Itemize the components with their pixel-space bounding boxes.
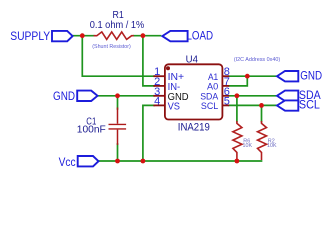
svg-text:(I2C Address 0x40): (I2C Address 0x40) bbox=[234, 57, 280, 63]
svg-text:5: 5 bbox=[224, 95, 230, 107]
svg-text:10K: 10K bbox=[243, 143, 253, 149]
svg-text:SUPPLY: SUPPLY bbox=[10, 29, 50, 43]
svg-text:VS: VS bbox=[168, 101, 181, 112]
svg-text:10K: 10K bbox=[267, 143, 277, 149]
svg-text:GND: GND bbox=[53, 89, 75, 103]
svg-text:100nF: 100nF bbox=[77, 124, 106, 135]
svg-text:SCL: SCL bbox=[201, 101, 218, 112]
svg-text:LOAD: LOAD bbox=[187, 28, 214, 42]
svg-text:0.1 ohm / 1%: 0.1 ohm / 1% bbox=[90, 19, 145, 31]
svg-text:(Shunt Resistor): (Shunt Resistor) bbox=[92, 44, 131, 50]
svg-text:GND: GND bbox=[300, 69, 322, 83]
svg-text:INA219: INA219 bbox=[178, 122, 210, 134]
svg-text:U4: U4 bbox=[186, 55, 199, 66]
svg-text:SCL: SCL bbox=[299, 98, 320, 112]
svg-text:Vcc: Vcc bbox=[59, 155, 76, 169]
svg-text:4: 4 bbox=[154, 95, 160, 107]
